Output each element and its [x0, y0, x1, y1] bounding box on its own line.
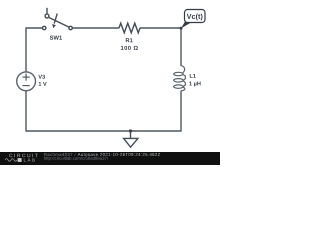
wire right vertical upper: [180, 28, 182, 66]
label V3: [38, 75, 45, 79]
label SW1: [50, 36, 62, 40]
label R1: [126, 38, 133, 42]
node flag Vc(t) tail: [181, 20, 190, 28]
wire top right segment: [140, 27, 182, 29]
switch SW1 right terminal circle: [69, 26, 72, 29]
inductor L1 coil loop3: [174, 85, 183, 88]
switch SW1 actuation arrow head: [52, 24, 56, 28]
wire left vertical upper: [25, 28, 27, 73]
label 100 Ohm: [121, 46, 138, 50]
node junction square at flag: [180, 27, 183, 30]
inductor L1 coil spine: [181, 66, 185, 91]
label L1: [190, 74, 196, 78]
switch SW1 actuation arrow shaft: [54, 14, 57, 24]
V3 plus sign: [23, 76, 30, 78]
watermark bar: [0, 152, 220, 165]
label 1 uH: [189, 82, 200, 87]
wire bottom horizontal: [26, 130, 182, 132]
watermark text line2: [44, 157, 108, 161]
wire top-left segment: [26, 27, 42, 29]
wire left vertical lower: [25, 91, 27, 132]
voltage source V3 circle: [17, 72, 36, 91]
watermark text line1 autosave: [78, 153, 161, 156]
V3 minus sign: [23, 85, 30, 87]
junction dot: [129, 129, 132, 132]
switch SW1 throw terminal circle: [45, 14, 49, 18]
watermark logo CIRCUIT: [9, 154, 38, 158]
label 1 V: [39, 82, 47, 86]
wire right vertical lower: [180, 91, 182, 132]
switch SW1 throw stub: [46, 8, 48, 14]
resistor R1: [119, 23, 140, 33]
watermark logo square mark: [18, 158, 22, 162]
switch SW1 left terminal circle: [43, 26, 46, 29]
watermark text line1 user: [44, 153, 75, 156]
ground stub: [130, 131, 132, 138]
switch SW1 lever: [49, 18, 69, 28]
watermark logo sine squiggle: [5, 159, 17, 162]
node flag Vc(t) box: [185, 10, 206, 23]
inductor L1 coil loop2: [174, 79, 183, 82]
ground triangle: [124, 138, 138, 147]
node flag Vc(t) text: [187, 14, 203, 21]
watermark logo LAB: [24, 158, 35, 161]
wire top middle segment: [72, 27, 119, 29]
inductor L1 coil loop1: [174, 72, 183, 75]
